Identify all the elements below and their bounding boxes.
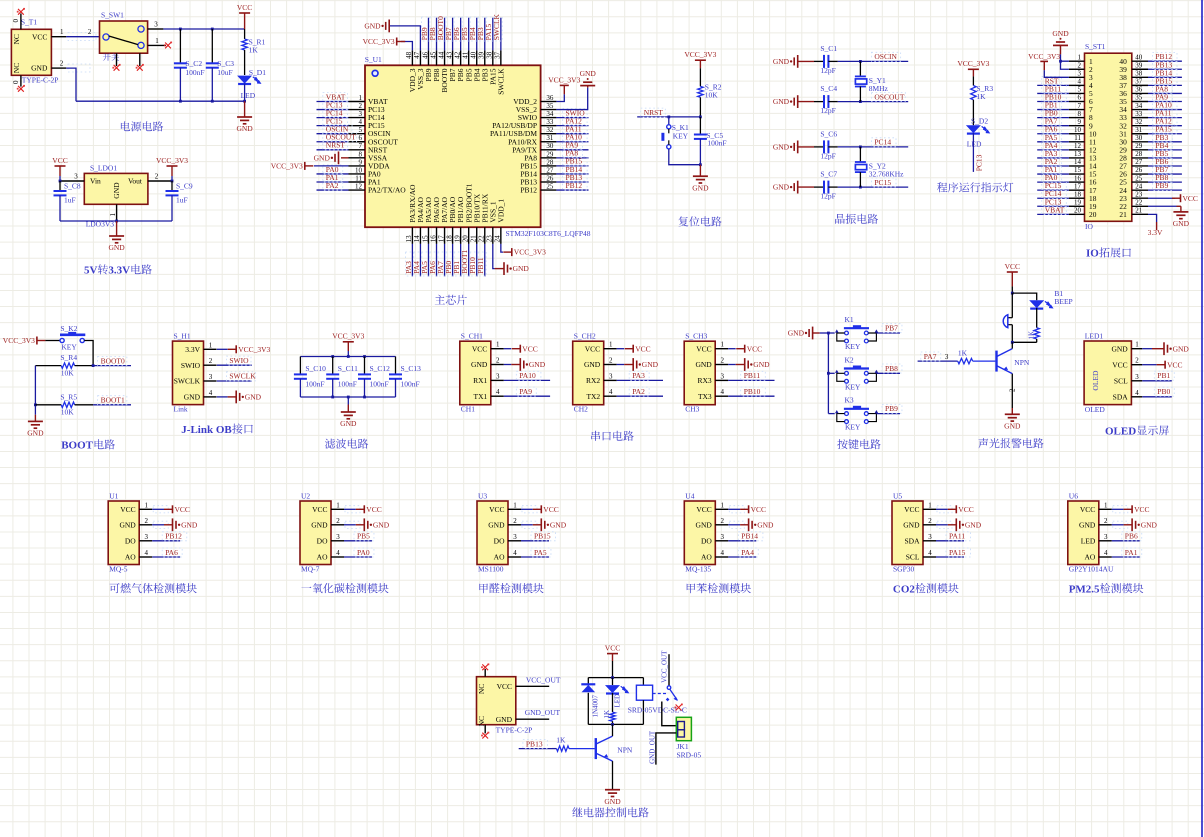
svg-text:GND: GND: [753, 360, 770, 369]
svg-text:2: 2: [496, 357, 500, 365]
svg-text:GND: GND: [965, 520, 982, 529]
svg-text:45: 45: [429, 51, 437, 59]
svg-text:100nF: 100nF: [338, 380, 357, 389]
svg-text:VCC: VCC: [366, 505, 381, 514]
svg-text:AO: AO: [317, 553, 328, 562]
svg-text:GND: GND: [236, 124, 253, 133]
svg-text:4: 4: [1104, 549, 1108, 557]
svg-text:3: 3: [209, 373, 213, 381]
svg-text:23: 23: [486, 235, 494, 243]
svg-text:S_C8: S_C8: [64, 182, 81, 191]
svg-text:25: 25: [1135, 174, 1143, 182]
svg-text:VCC_OUT: VCC_OUT: [526, 675, 561, 684]
svg-text:GND: GND: [1173, 344, 1190, 353]
svg-text:SRD-05: SRD-05: [677, 750, 702, 759]
svg-text:GND: GND: [119, 520, 136, 529]
svg-text:41: 41: [461, 51, 469, 59]
svg-text:VCC_3V3: VCC_3V3: [957, 59, 989, 68]
svg-text:GND: GND: [496, 715, 513, 724]
svg-text:10K: 10K: [61, 368, 75, 377]
svg-text:S_C7: S_C7: [820, 170, 837, 179]
wire net PA4 bottom: [419, 244, 421, 277]
svg-text:28: 28: [546, 158, 554, 166]
MCU left pin 11 PA1: [349, 181, 366, 183]
pin 2 Vout: [148, 180, 172, 182]
svg-text:PA5: PA5: [534, 548, 547, 557]
VCC flag IO pin23: [1148, 197, 1175, 199]
wire net PB11: [728, 379, 774, 381]
svg-text:VCC_3V3: VCC_3V3: [271, 162, 303, 171]
svg-text:GND: GND: [513, 264, 530, 273]
svg-text:S_C2: S_C2: [185, 59, 202, 68]
svg-text:PB11: PB11: [744, 371, 761, 380]
MCU right pin 36 VDD_2: [541, 101, 557, 103]
svg-text:S_C3: S_C3: [217, 59, 234, 68]
ground GND OLED pin1: [1142, 348, 1152, 350]
MCU U1 STM32F103C8T6_LQFP48 body: [365, 65, 541, 227]
svg-text:PB10: PB10: [744, 387, 761, 396]
svg-text:OSCIN: OSCIN: [874, 52, 897, 61]
svg-text:33: 33: [1135, 110, 1143, 118]
svg-text:2: 2: [144, 517, 148, 525]
svg-text:VCC: VCC: [1134, 505, 1149, 514]
svg-text:LED: LED: [1081, 536, 1096, 545]
resistor 1K base: [958, 358, 973, 363]
wire net PA5: [521, 556, 549, 558]
svg-text:PC15: PC15: [874, 178, 891, 187]
capacitor S_C8 1uF: [59, 181, 61, 191]
svg-text:GND: GND: [584, 360, 601, 369]
svg-text:AO: AO: [125, 553, 136, 562]
svg-text:44: 44: [437, 51, 445, 59]
resistor S_R3 1K: [971, 86, 976, 100]
wire net NRST: [317, 149, 349, 151]
svg-text:MQ-7: MQ-7: [301, 565, 320, 574]
svg-text:1: 1: [336, 501, 340, 509]
svg-text:VCC: VCC: [312, 505, 327, 514]
relay TYPE-C top pin unconnected: [484, 669, 486, 677]
svg-text:4: 4: [721, 549, 725, 557]
svg-text:S_C9: S_C9: [176, 182, 193, 191]
svg-text:S_C11: S_C11: [338, 364, 358, 373]
MCU bottom pin 20 PB2/BOOT1: [468, 227, 470, 244]
MCU right pin 28 PB15: [541, 165, 557, 167]
svg-text:3: 3: [928, 533, 932, 541]
resistor 1K alarm vertical: [1034, 328, 1039, 339]
svg-text:1: 1: [144, 501, 148, 509]
svg-text:NC: NC: [12, 63, 21, 73]
MCU top pin 41 PB5: [468, 50, 470, 65]
switch bottom pins unconnected: [116, 53, 118, 66]
wire net PB5 top: [468, 18, 470, 51]
svg-text:GND: GND: [695, 360, 712, 369]
S_ST1 right pin 29: [1132, 149, 1148, 151]
MCU top pin 43 PB7: [452, 50, 454, 65]
VCC flag OLED pin2: [1142, 364, 1156, 366]
svg-text:GND: GND: [529, 360, 546, 369]
capacitor S_C3 10uF: [211, 28, 214, 31]
capacitor S_C5 100nF: [699, 117, 701, 135]
wire net PB10 bottom: [476, 244, 478, 277]
capacitor S_C4 12pF: [814, 101, 824, 103]
capacitor S_C6 12pF: [814, 146, 824, 148]
svg-text:1: 1: [359, 94, 363, 102]
S_ST1 left pin 1: [1069, 60, 1085, 62]
svg-text:U2: U2: [301, 492, 310, 501]
svg-text:PA6: PA6: [165, 548, 178, 557]
3.3V flag IO pin21: [1148, 214, 1157, 222]
svg-text:S_T1: S_T1: [21, 17, 38, 26]
svg-text:39: 39: [1135, 61, 1143, 69]
wire net PB10 IO left: [1037, 101, 1069, 103]
wire net PA11 right: [556, 133, 588, 135]
LED relay: [612, 678, 614, 686]
svg-text:1K: 1K: [556, 735, 566, 744]
svg-text:S_C1: S_C1: [820, 44, 837, 53]
capacitor S_C7 12pF: [814, 186, 824, 188]
svg-text:GND: GND: [373, 520, 390, 529]
wire net PB14 IO right: [1148, 76, 1182, 78]
wire net BOOT0: [92, 364, 95, 367]
wire net PB4 top: [476, 18, 478, 51]
svg-text:CH1: CH1: [461, 405, 475, 414]
wire net PB5: [344, 540, 372, 542]
svg-text:OLED: OLED: [1091, 370, 1100, 391]
MCU top pin 46 PB9: [427, 50, 429, 65]
svg-text:VCC: VCC: [472, 344, 487, 353]
wire net PA4: [728, 556, 756, 558]
svg-text:14: 14: [413, 235, 421, 243]
svg-text:38: 38: [486, 51, 494, 59]
transistor NPN alarm: [995, 351, 997, 372]
svg-text:24: 24: [494, 235, 502, 243]
S_ST1 left pin 18: [1069, 197, 1085, 199]
ground flag at MCU pin 8 VSSA: [341, 157, 349, 159]
svg-text:26: 26: [1135, 166, 1143, 174]
pin 0 bottom of S_T1: [20, 75, 22, 86]
svg-text:GND: GND: [773, 143, 790, 152]
svg-text:VCC_3V3: VCC_3V3: [332, 332, 364, 341]
ground GND S_CH3 pin2: [728, 364, 736, 366]
caption 串口电路: [591, 431, 633, 441]
svg-text:30: 30: [546, 142, 554, 150]
MCU top pin 47 VSS_3: [419, 50, 421, 65]
caption 程序运行指示灯: [937, 182, 1013, 192]
S_ST1 left pin 8: [1069, 117, 1085, 119]
display LED1 OLED body: [1084, 341, 1131, 405]
svg-text:KEY: KEY: [61, 343, 77, 352]
svg-text:DO: DO: [317, 536, 328, 545]
module U4 MQ-135: [684, 501, 715, 565]
svg-text:GND: GND: [757, 520, 774, 529]
MCU top pin 39 PB3: [484, 50, 486, 65]
svg-text:4: 4: [1135, 389, 1139, 397]
S_ST1 right pin 22: [1132, 205, 1148, 207]
MCU bottom pin 16 PA6/AO: [436, 227, 438, 244]
svg-text:2: 2: [513, 517, 517, 525]
pin 1 VCC of S_T1: [51, 36, 66, 38]
MCU right pin 27 PB14: [541, 173, 557, 175]
ground GND crystal row PC14: [797, 141, 799, 154]
MCU right pin 33 PA12/USB/DP: [541, 125, 557, 127]
svg-text:PM2.5: PM2.5: [1069, 583, 1100, 595]
S_ST1 left pin 2: [1069, 68, 1085, 70]
svg-text:CH2: CH2: [574, 405, 588, 414]
svg-text:SWCLK: SWCLK: [496, 68, 505, 95]
S_ST1 left pin 13: [1069, 157, 1085, 159]
svg-text:40: 40: [1135, 53, 1143, 61]
svg-text:4: 4: [144, 549, 148, 557]
wire net PA15: [936, 556, 964, 558]
svg-text:LED: LED: [241, 91, 256, 100]
wire net PA6 IO left: [1037, 133, 1069, 135]
key S_K1: [668, 117, 670, 125]
ground GND U3 pin2: [522, 521, 537, 528]
MCU left pin 2 PC13: [349, 109, 366, 111]
ground GND S_CH1 pin2: [504, 364, 512, 366]
svg-text:VCC: VCC: [751, 505, 766, 514]
wire net PB15 IO right: [1148, 84, 1182, 86]
svg-text:4: 4: [1078, 78, 1082, 86]
ground GND reset: [699, 165, 701, 177]
svg-text:GND: GND: [314, 153, 331, 162]
capacitor S_C1 12pF: [814, 60, 824, 62]
wire net PB7 top: [452, 18, 454, 51]
VCC flag U5 pin1: [937, 506, 952, 513]
ground GND S_CH2 pin2: [617, 364, 625, 366]
bottom rail of power circuit: [76, 100, 245, 102]
wire net PA0: [317, 173, 349, 175]
svg-text:PA1: PA1: [1125, 548, 1138, 557]
svg-text:VCC: VCC: [696, 344, 711, 353]
svg-text:5V: 5V: [84, 265, 98, 277]
svg-text:SGP30: SGP30: [893, 565, 915, 574]
svg-text:PC13: PC13: [974, 154, 983, 171]
capacitor S_C9 1uF: [171, 181, 173, 191]
svg-text:SWCLK: SWCLK: [229, 372, 256, 381]
svg-text:VCC: VCC: [585, 344, 600, 353]
svg-text:3: 3: [609, 372, 613, 380]
svg-text:RX3: RX3: [698, 376, 712, 385]
svg-text:36: 36: [546, 94, 554, 102]
wire net PA15 IO right: [1148, 133, 1182, 135]
MCU bottom pin 17 PA7/AO: [444, 227, 446, 244]
svg-text:100nF: 100nF: [370, 380, 389, 389]
S_ST1 left pin 20: [1069, 213, 1085, 215]
MCU bottom pin 23 VSS_1: [492, 227, 494, 244]
left rail BOOT: [34, 366, 36, 415]
svg-text:LDO3V3: LDO3V3: [86, 220, 115, 229]
svg-text:20: 20: [1074, 207, 1082, 215]
svg-text:KEY: KEY: [845, 423, 861, 432]
svg-text:VCC: VCC: [747, 344, 762, 353]
svg-text:NC: NC: [12, 34, 21, 44]
VCC flag U3 pin1: [522, 506, 537, 513]
svg-text:GND: GND: [1079, 520, 1096, 529]
wire net PA10 IO right: [1148, 109, 1182, 111]
svg-text:47: 47: [413, 51, 421, 59]
svg-text:27: 27: [546, 166, 554, 174]
ground GND J-Link pin4: [217, 396, 228, 398]
MCU bottom pin 22 PB11/RX: [484, 227, 486, 244]
wire net PB0 bottom: [452, 244, 454, 277]
svg-text:VCC_OUT: VCC_OUT: [660, 650, 668, 683]
svg-text:OLED: OLED: [1085, 405, 1106, 414]
S_ST1 left pin 11: [1069, 141, 1085, 143]
diode 1N4007: [587, 678, 589, 685]
capacitor S_C12 100nF: [364, 357, 366, 375]
wire net RST IO left: [1037, 84, 1069, 86]
caption 声光报警电路: [978, 438, 1043, 448]
wire net OSCIN: [317, 133, 349, 135]
svg-text:39: 39: [478, 51, 486, 59]
caption 滤波电路: [325, 439, 368, 449]
svg-text:2: 2: [60, 60, 64, 68]
transistor NPN relay: [595, 738, 597, 759]
svg-text:PB14: PB14: [741, 532, 758, 541]
svg-text:1uF: 1uF: [64, 196, 76, 205]
wire net PA3 IO left: [1037, 157, 1069, 159]
svg-text:S_K2: S_K2: [60, 324, 77, 333]
S_ST1 right pin 35: [1132, 101, 1148, 103]
svg-text:S_R5: S_R5: [60, 392, 77, 401]
svg-text:VCC: VCC: [497, 682, 512, 691]
VCC flag S_CH3 pin1: [728, 348, 736, 350]
svg-text:12: 12: [1074, 142, 1082, 150]
svg-text:KEY: KEY: [845, 382, 861, 391]
caption 继电器控制电路: [572, 807, 648, 817]
resistor S_R4 10K: [35, 365, 61, 367]
svg-text:3: 3: [1078, 70, 1082, 78]
svg-text:GND: GND: [604, 797, 621, 806]
svg-text:4: 4: [928, 549, 932, 557]
S_ST1 right pin 32: [1132, 125, 1148, 127]
resistor S_R1 1K: [244, 29, 246, 39]
svg-text:11: 11: [355, 174, 362, 182]
svg-text:GND: GND: [311, 520, 328, 529]
resistor 1K relay base: [557, 746, 570, 751]
wire net PA9: [504, 395, 550, 397]
svg-text:J-Link OB: J-Link OB: [181, 424, 232, 436]
svg-text:VCC: VCC: [120, 505, 135, 514]
svg-text:20: 20: [461, 235, 469, 243]
svg-text:K1: K1: [845, 315, 854, 324]
svg-text:S_R4: S_R4: [60, 353, 77, 362]
S_ST1 right pin 37: [1132, 84, 1148, 86]
MCU bottom pin 21 PB10/TX: [476, 227, 478, 244]
connector S_CH1 serial: [460, 341, 491, 405]
svg-text:DO: DO: [125, 536, 136, 545]
caption 可燃气体检测模块: [110, 583, 197, 593]
ground GND U5 pin2: [937, 521, 952, 528]
svg-text:VCC_3V3: VCC_3V3: [363, 37, 395, 46]
svg-text:PB7: PB7: [885, 324, 898, 333]
svg-text:S_C6: S_C6: [820, 129, 837, 138]
MCU left pin 10 PA0: [349, 173, 366, 175]
wire net BOOT1: [93, 404, 131, 406]
keys left rail: [827, 333, 829, 414]
svg-text:100nF: 100nF: [707, 139, 726, 148]
svg-text:VCC: VCC: [543, 505, 558, 514]
S_ST1 left pin 7: [1069, 109, 1085, 111]
caption 主芯片: [435, 295, 467, 305]
wire net PB9 top: [427, 18, 429, 51]
wire net PB15 right: [556, 165, 588, 167]
svg-text:12pF: 12pF: [820, 66, 835, 75]
MCU top pin 38 PA15: [492, 50, 494, 65]
wire net PA6 bottom: [436, 244, 438, 277]
wire net PB6 top: [460, 18, 462, 51]
wire net PA7 IO left: [1037, 125, 1069, 127]
svg-text:SDA: SDA: [1113, 392, 1129, 401]
S_ST1 left pin 5: [1069, 92, 1085, 94]
wire net VCC_OUT: [516, 685, 549, 687]
svg-text:U1: U1: [109, 492, 118, 501]
svg-text:32: 32: [1135, 118, 1143, 126]
wire net PA9 IO right: [1148, 101, 1182, 103]
svg-text:3: 3: [1135, 373, 1139, 381]
S_ST1 left pin 10: [1069, 133, 1085, 135]
svg-text:100nF: 100nF: [305, 380, 324, 389]
relay switch blade: [667, 686, 671, 690]
svg-text:4: 4: [609, 388, 613, 396]
svg-text:LED1: LED1: [1085, 332, 1104, 341]
crystal S_Y2 32.768KHz: [859, 147, 861, 162]
svg-text:K3: K3: [845, 396, 854, 405]
svg-text:SWCLK: SWCLK: [492, 13, 501, 40]
svg-text:AO: AO: [1084, 553, 1095, 562]
wire net PB15: [521, 540, 549, 542]
svg-text:GND: GND: [364, 22, 381, 31]
MCU left pin 6 OSCOUT: [349, 141, 366, 143]
wire net PA7 base: [918, 360, 958, 362]
resistor S_R5 10K: [35, 404, 61, 406]
wire NRST: [637, 116, 700, 118]
svg-text:24: 24: [1135, 182, 1143, 190]
wire net PA11 IO right: [1148, 117, 1182, 119]
wire key to bottom rail: [669, 149, 701, 165]
svg-text:42: 42: [453, 51, 461, 59]
wire net PB13 right: [556, 181, 588, 183]
wire net PB11 IO left: [1037, 92, 1069, 94]
svg-text:SWCLK: SWCLK: [174, 377, 201, 386]
S_ST1 right pin 39: [1132, 68, 1148, 70]
LED B1 BEEP branch: [1012, 293, 1036, 300]
connector S_ST1 IO header body: [1085, 53, 1132, 221]
svg-text:PA10: PA10: [519, 371, 536, 380]
svg-text:0: 0: [12, 80, 20, 84]
svg-text:PB6: PB6: [1125, 532, 1138, 541]
svg-text:1: 1: [155, 37, 159, 45]
S_ST1 right pin 31: [1132, 133, 1148, 135]
svg-text:19: 19: [1074, 198, 1082, 206]
wire net PA9 right: [556, 149, 588, 151]
svg-text:GND: GND: [696, 520, 713, 529]
S_ST1 left pin 14: [1069, 165, 1085, 167]
switch label 开关: [103, 53, 119, 61]
VCC flag U2 pin1: [345, 506, 360, 513]
svg-text:GND: GND: [184, 393, 201, 402]
MCU right pin 29 PA8: [541, 157, 557, 159]
svg-text:6: 6: [359, 134, 363, 142]
svg-text:GND: GND: [471, 360, 488, 369]
wire net PB12 IO right: [1148, 60, 1182, 62]
svg-text:13: 13: [1074, 150, 1082, 158]
svg-text:VCC: VCC: [1167, 360, 1182, 369]
svg-text:MQ-135: MQ-135: [685, 565, 711, 574]
svg-text:4: 4: [513, 549, 517, 557]
svg-text:VCC: VCC: [696, 505, 711, 514]
